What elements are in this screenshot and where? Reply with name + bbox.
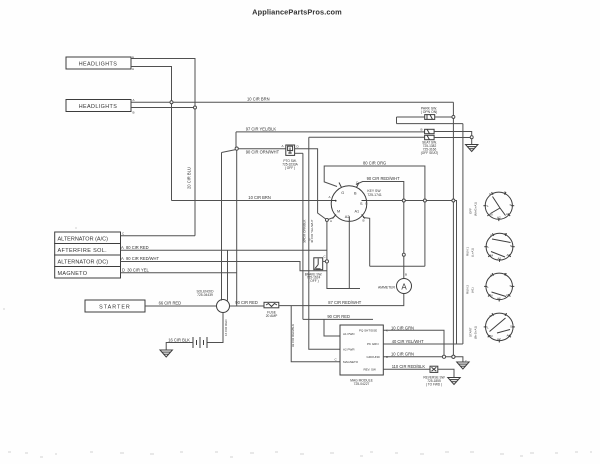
- op key switch U1 circle: [329, 181, 369, 224]
- svg-text:ALTERNATOR (A/C): ALTERNATOR (A/C): [58, 236, 109, 242]
- svg-text:STARTER: STARTER: [99, 305, 131, 311]
- solenoid K1 circle: [217, 300, 230, 313]
- node junction S2: [423, 199, 426, 202]
- svg-text:RUN 2: RUN 2: [466, 285, 470, 294]
- svg-text:REV. SW: REV. SW: [364, 367, 377, 371]
- svg-text:A1: A1: [507, 253, 511, 257]
- svg-text:20 CIR BLU: 20 CIR BLU: [187, 167, 192, 189]
- svg-text:B: B: [133, 111, 135, 115]
- svg-text:( OFF ): ( OFF ): [308, 279, 318, 283]
- wire park right: [435, 116, 454, 118]
- wire pto lower contact: [295, 152, 303, 154]
- starter box: [85, 300, 145, 312]
- svg-text:40 CIR YEL/WHT: 40 CIR YEL/WHT: [392, 339, 424, 344]
- svg-text:16 CIR RED: 16 CIR RED: [224, 319, 228, 336]
- wire starter to solenoid: [145, 305, 217, 307]
- svg-text:S: S: [510, 325, 512, 329]
- svg-text:725-04439: 725-04439: [197, 293, 213, 297]
- svg-text:A2: A2: [497, 216, 501, 220]
- svg-text:(M+G+A1): (M+G+A1): [474, 202, 478, 216]
- svg-text:AppliancePartsPros.com: AppliancePartsPros.com: [252, 8, 342, 17]
- svg-text:B: B: [504, 272, 506, 276]
- svg-text:G: G: [365, 202, 368, 206]
- wire HL2 top 10 CIR BRN: [131, 101, 453, 103]
- svg-text:L: L: [488, 245, 490, 249]
- wire ammeter top link: [370, 265, 425, 267]
- svg-text:30 CIR ORN/BLK: 30 CIR ORN/BLK: [303, 220, 307, 243]
- wire A2 bus drop: [309, 137, 340, 349]
- svg-text:A2: A2: [497, 337, 501, 341]
- wire right bus x462.9: [462, 124, 464, 344]
- svg-text:MAGNETO: MAGNETO: [58, 271, 88, 277]
- reverse switch SW5: [423, 366, 444, 386]
- svg-text:HEADLIGHTS: HEADLIGHTS: [79, 62, 117, 68]
- svg-text:B: B: [505, 232, 507, 236]
- node junction HL cross1: [170, 101, 173, 104]
- wire key L 10 CIR BRN: [172, 200, 332, 202]
- svg-text:(B+S+A1): (B+S+A1): [474, 326, 478, 339]
- svg-text:A 80 CIR RED: A 80 CIR RED: [121, 245, 149, 250]
- wire key M drop to brake: [326, 220, 328, 262]
- node junction HL cross2: [194, 106, 197, 109]
- mag module U2 box: [340, 325, 383, 386]
- svg-text:D 30 CIR YEL: D 30 CIR YEL: [122, 268, 149, 273]
- wire mid bus x236.7: [236, 150, 238, 306]
- svg-text:A1: A1: [506, 212, 510, 216]
- wire fuse branch down to magneto pin: [291, 306, 340, 362]
- svg-text:M: M: [490, 294, 493, 298]
- svg-text:A: A: [330, 219, 332, 223]
- svg-text:( TO FWD ): ( TO FWD ): [426, 382, 442, 386]
- ammeter M1: [378, 273, 412, 294]
- headlight HL2 box: [66, 98, 135, 115]
- wire park left: [397, 116, 425, 118]
- svg-text:L: L: [335, 199, 337, 203]
- wire solenoid to fuse: [230, 305, 265, 307]
- svg-text:A: A: [132, 67, 134, 71]
- wire battery to ground: [166, 343, 193, 351]
- svg-text:OFF: OFF: [469, 208, 473, 214]
- svg-text:A2: A2: [345, 215, 350, 219]
- svg-text:725-04227: 725-04227: [354, 382, 370, 386]
- node junction S1: [402, 199, 405, 202]
- svg-text:HEADLIGHTS: HEADLIGHTS: [79, 104, 117, 110]
- svg-text:B: B: [363, 219, 365, 223]
- svg-text:A2: A2: [497, 297, 501, 301]
- svg-text:A2 PWR: A2 PWR: [343, 347, 355, 351]
- svg-text:10 CIR BRN: 10 CIR BRN: [247, 97, 270, 102]
- wire reverse to ground: [438, 369, 454, 377]
- node junction brake: [325, 260, 328, 263]
- svg-text:C: C: [122, 232, 125, 236]
- svg-text:97 CIR YEL/BLK: 97 CIR YEL/BLK: [246, 127, 277, 132]
- battery BT1: [193, 337, 207, 348]
- svg-text:A1: A1: [506, 293, 510, 297]
- wire brake right: [323, 260, 327, 262]
- svg-text:C: C: [324, 255, 327, 259]
- connector C2 RUN1: [466, 232, 515, 262]
- node junction M: [325, 218, 328, 221]
- svg-text:40 CIR YEL/WHT: 40 CIR YEL/WHT: [310, 219, 314, 243]
- node junction bus453 low: [452, 355, 455, 358]
- wire interlock y123.6: [397, 123, 463, 125]
- svg-text:90 CIR ORN/WHT: 90 CIR ORN/WHT: [246, 150, 280, 155]
- node junction gnd1: [442, 355, 445, 358]
- svg-text:M: M: [337, 210, 340, 214]
- park switch SW1: [421, 106, 438, 119]
- wire HL2 bottom: [131, 107, 195, 109]
- svg-text:G: G: [341, 191, 344, 195]
- wire key M diag: [327, 218, 334, 220]
- wire orn/wht to PTO: [238, 148, 286, 150]
- svg-text:(L+A1): (L+A1): [471, 248, 475, 257]
- svg-text:S: S: [360, 202, 363, 206]
- wire 80 CIR ORG loop: [324, 166, 425, 266]
- wire solenoid coil drop B: [227, 250, 229, 300]
- alternator stack boxes: [55, 232, 121, 278]
- ground G1 seat: [466, 139, 478, 152]
- svg-text:M: M: [491, 254, 494, 258]
- svg-text:C: C: [335, 358, 338, 362]
- wire 97 corner down: [235, 132, 237, 149]
- svg-text:S: S: [510, 203, 512, 207]
- wire 303 bus drop: [302, 153, 304, 319]
- svg-text:87 CIR RED/WHT: 87 CIR RED/WHT: [328, 300, 361, 305]
- svg-text:10 CIR GRN: 10 CIR GRN: [391, 352, 414, 357]
- svg-text:90 CIR RED: 90 CIR RED: [327, 314, 350, 319]
- scan noise bottom: [3, 228, 592, 457]
- pto switch SW3: [282, 144, 300, 170]
- svg-text:MAGNETO: MAGNETO: [343, 360, 359, 364]
- connector C1 OFF: [469, 191, 515, 222]
- svg-text:A: A: [133, 98, 135, 102]
- svg-text:ALTERNATOR (DC): ALTERNATOR (DC): [58, 259, 109, 265]
- svg-text:AMMETER: AMMETER: [378, 285, 396, 289]
- wire 90 CIR RED/WHT key B: [356, 182, 404, 279]
- node junction gnd2: [452, 355, 455, 358]
- svg-text:20 AMP: 20 AMP: [266, 314, 278, 318]
- wire key S to right: [367, 201, 457, 345]
- ground G3 main: [457, 360, 469, 370]
- brake switch SW4: [303, 238, 327, 284]
- svg-text:B: B: [505, 313, 507, 317]
- svg-text:AFTERFIRE SOL.: AFTERFIRE SOL.: [58, 248, 108, 254]
- svg-text:D: D: [297, 145, 300, 149]
- svg-text:B: B: [504, 191, 506, 195]
- wire A1 pin step: [324, 319, 340, 336]
- node junction orn/wht: [235, 147, 238, 150]
- svg-text:PQ SHT/DSE: PQ SHT/DSE: [359, 328, 377, 332]
- svg-text:66 CIR RED: 66 CIR RED: [159, 301, 182, 306]
- svg-text:S: S: [510, 244, 512, 248]
- headlight HL1 box: [66, 56, 134, 72]
- connector C4 START: [469, 313, 515, 343]
- wire right bus down x453: [452, 102, 454, 357]
- wire key A1: [363, 218, 370, 267]
- ground G4 reverse: [448, 378, 460, 385]
- svg-text:90 CIR RED: 90 CIR RED: [235, 300, 258, 305]
- svg-text:L: L: [487, 326, 489, 330]
- svg-text:A1: A1: [507, 334, 511, 338]
- node junction B drop: [402, 253, 405, 256]
- wire solenoid to battery: [207, 313, 223, 343]
- wire HL1-B to junction: [131, 59, 195, 236]
- svg-text:( OPN ON): ( OPN ON): [421, 110, 438, 114]
- wire 97 CIR YEL/BLK: [236, 131, 425, 133]
- svg-text:GROUND: GROUND: [367, 355, 381, 359]
- svg-text:START: START: [469, 327, 473, 337]
- wire seat lower right: [434, 137, 472, 139]
- svg-text:A1 PWD: A1 PWD: [343, 332, 355, 336]
- svg-text:(OFF SEAT): (OFF SEAT): [421, 151, 438, 155]
- svg-text:16 CIR BLK: 16 CIR BLK: [168, 337, 190, 342]
- wire seat lower left y138.5: [309, 136, 425, 138]
- wire brake drop: [327, 263, 360, 289]
- svg-text:( OFF ): ( OFF ): [285, 166, 295, 170]
- svg-text:80 CIR ORG: 80 CIR ORG: [363, 161, 386, 166]
- wire 90red step to A1 pin: [303, 318, 373, 320]
- svg-text:92 CIR RED/BLK: 92 CIR RED/BLK: [291, 324, 295, 347]
- fuse F1: [264, 302, 279, 318]
- wire pto D right: [295, 149, 327, 220]
- node junction seat gnd: [470, 136, 473, 139]
- svg-text:A2: A2: [498, 257, 502, 261]
- svg-text:10 CIR BRN: 10 CIR BRN: [248, 195, 271, 200]
- svg-text:PK GRN: PK GRN: [367, 342, 379, 346]
- svg-text:B: B: [354, 192, 357, 196]
- wire park step: [396, 117, 398, 124]
- svg-text:725-1741: 725-1741: [367, 193, 381, 197]
- svg-text:S: S: [510, 284, 512, 288]
- svg-text:B: B: [405, 273, 407, 277]
- svg-text:90 CIR RED/WHT: 90 CIR RED/WHT: [367, 176, 400, 181]
- svg-text:10 CIR GRN: 10 CIR GRN: [391, 326, 414, 331]
- ground G2 battery: [160, 350, 172, 357]
- svg-text:L: L: [487, 285, 489, 289]
- wire key A2: [348, 221, 350, 288]
- node junction S3: [452, 199, 455, 202]
- svg-text:A 90 CIR RED/WHT: A 90 CIR RED/WHT: [121, 256, 159, 261]
- svg-text:M: M: [490, 334, 493, 338]
- seat switch SW2: [421, 128, 439, 155]
- svg-text:RUN 1: RUN 1: [466, 247, 470, 256]
- svg-text:A: A: [282, 144, 284, 148]
- connector C3 RUN2: [466, 272, 515, 302]
- wire seat upper right: [434, 132, 472, 138]
- svg-text:L: L: [487, 204, 489, 208]
- svg-text:B: B: [421, 128, 423, 132]
- wire HL1-A down 20 CIR BLU: [131, 67, 172, 201]
- svg-text:(A1): (A1): [471, 287, 475, 293]
- svg-text:A1: A1: [355, 210, 360, 214]
- wire fuse to ammeter bottom: [279, 294, 404, 306]
- svg-text:A: A: [401, 283, 407, 292]
- node junction park: [452, 115, 455, 118]
- wire solenoid coil drop A: [221, 153, 223, 301]
- svg-text:110 CIR RED/BLK: 110 CIR RED/BLK: [392, 364, 426, 369]
- svg-text:A: A: [329, 195, 331, 199]
- wire orn/wht diag to solenoid drop: [222, 150, 236, 153]
